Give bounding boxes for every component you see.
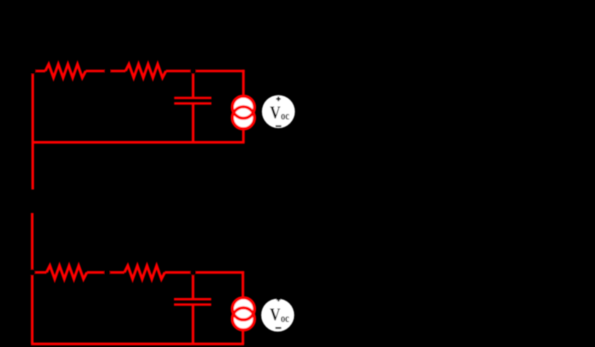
junction dot (black) between R3 and R4 (104, 269, 110, 275)
junction dot (black) at capacitor C2 tap (190, 269, 196, 275)
wire left vertical down to terminal a (31, 70, 34, 190)
wire top-left horizontal segment (node B to R3) (32, 271, 46, 274)
wire right vertical (through source G1) (242, 70, 245, 143)
source G2 (overlapping-circles generator symbol) (232, 298, 254, 330)
resistor R2 (126, 64, 166, 78)
wire top-left horizontal segment (node A to R1) (33, 70, 46, 73)
wire right vertical (through source G2) (242, 271, 245, 344)
svg-text:V: V (270, 304, 281, 324)
resistor R4 (124, 266, 164, 280)
wire bottom of bottom circuit (31, 343, 244, 346)
capacitor C2 plates (174, 299, 211, 304)
wire between R3 and R4 (87, 271, 125, 274)
capacitor C2 top lead (192, 272, 195, 299)
resistor R3 (47, 266, 87, 280)
plus polarity mark (top circle) (276, 97, 280, 101)
capacitor C1 top lead (192, 71, 195, 98)
voltage label circle Voc (top) (262, 95, 295, 128)
junction dot (black) at capacitor C1 tap (190, 68, 196, 74)
wire bottom of top circuit (32, 141, 245, 144)
svg-text:V: V (270, 103, 281, 123)
voltage label circle Voc (bottom) (261, 299, 294, 332)
minus polarity mark (bottom circle) (275, 327, 281, 329)
wire between R1 and R2 (86, 70, 126, 73)
svg-text:oc: oc (281, 109, 290, 123)
capacitor C1 plates (174, 98, 211, 104)
junction dot (black) between R1 and R2 (104, 68, 111, 75)
plus polarity mark (bottom circle) (276, 297, 280, 301)
junction dot (black) at node B left T (29, 269, 35, 275)
svg-text:oc: oc (281, 311, 290, 325)
wire left vertical from terminal b down through node B (31, 213, 34, 344)
source G1 (overlapping-circles generator symbol) (232, 96, 254, 129)
wire from R2 to top-right corner (166, 70, 245, 73)
minus polarity mark (top circle) (276, 125, 282, 127)
resistor R1 (45, 64, 85, 78)
capacitor C2 bottom lead (192, 305, 195, 344)
wire from R4 to top-right corner (bottom circuit) (165, 271, 244, 274)
junction dot (black) at node A top-left corner (30, 68, 36, 74)
capacitor C1 bottom lead (192, 103, 195, 142)
label Voc text (top) (270, 103, 290, 123)
label Voc text (bottom) (270, 304, 290, 325)
